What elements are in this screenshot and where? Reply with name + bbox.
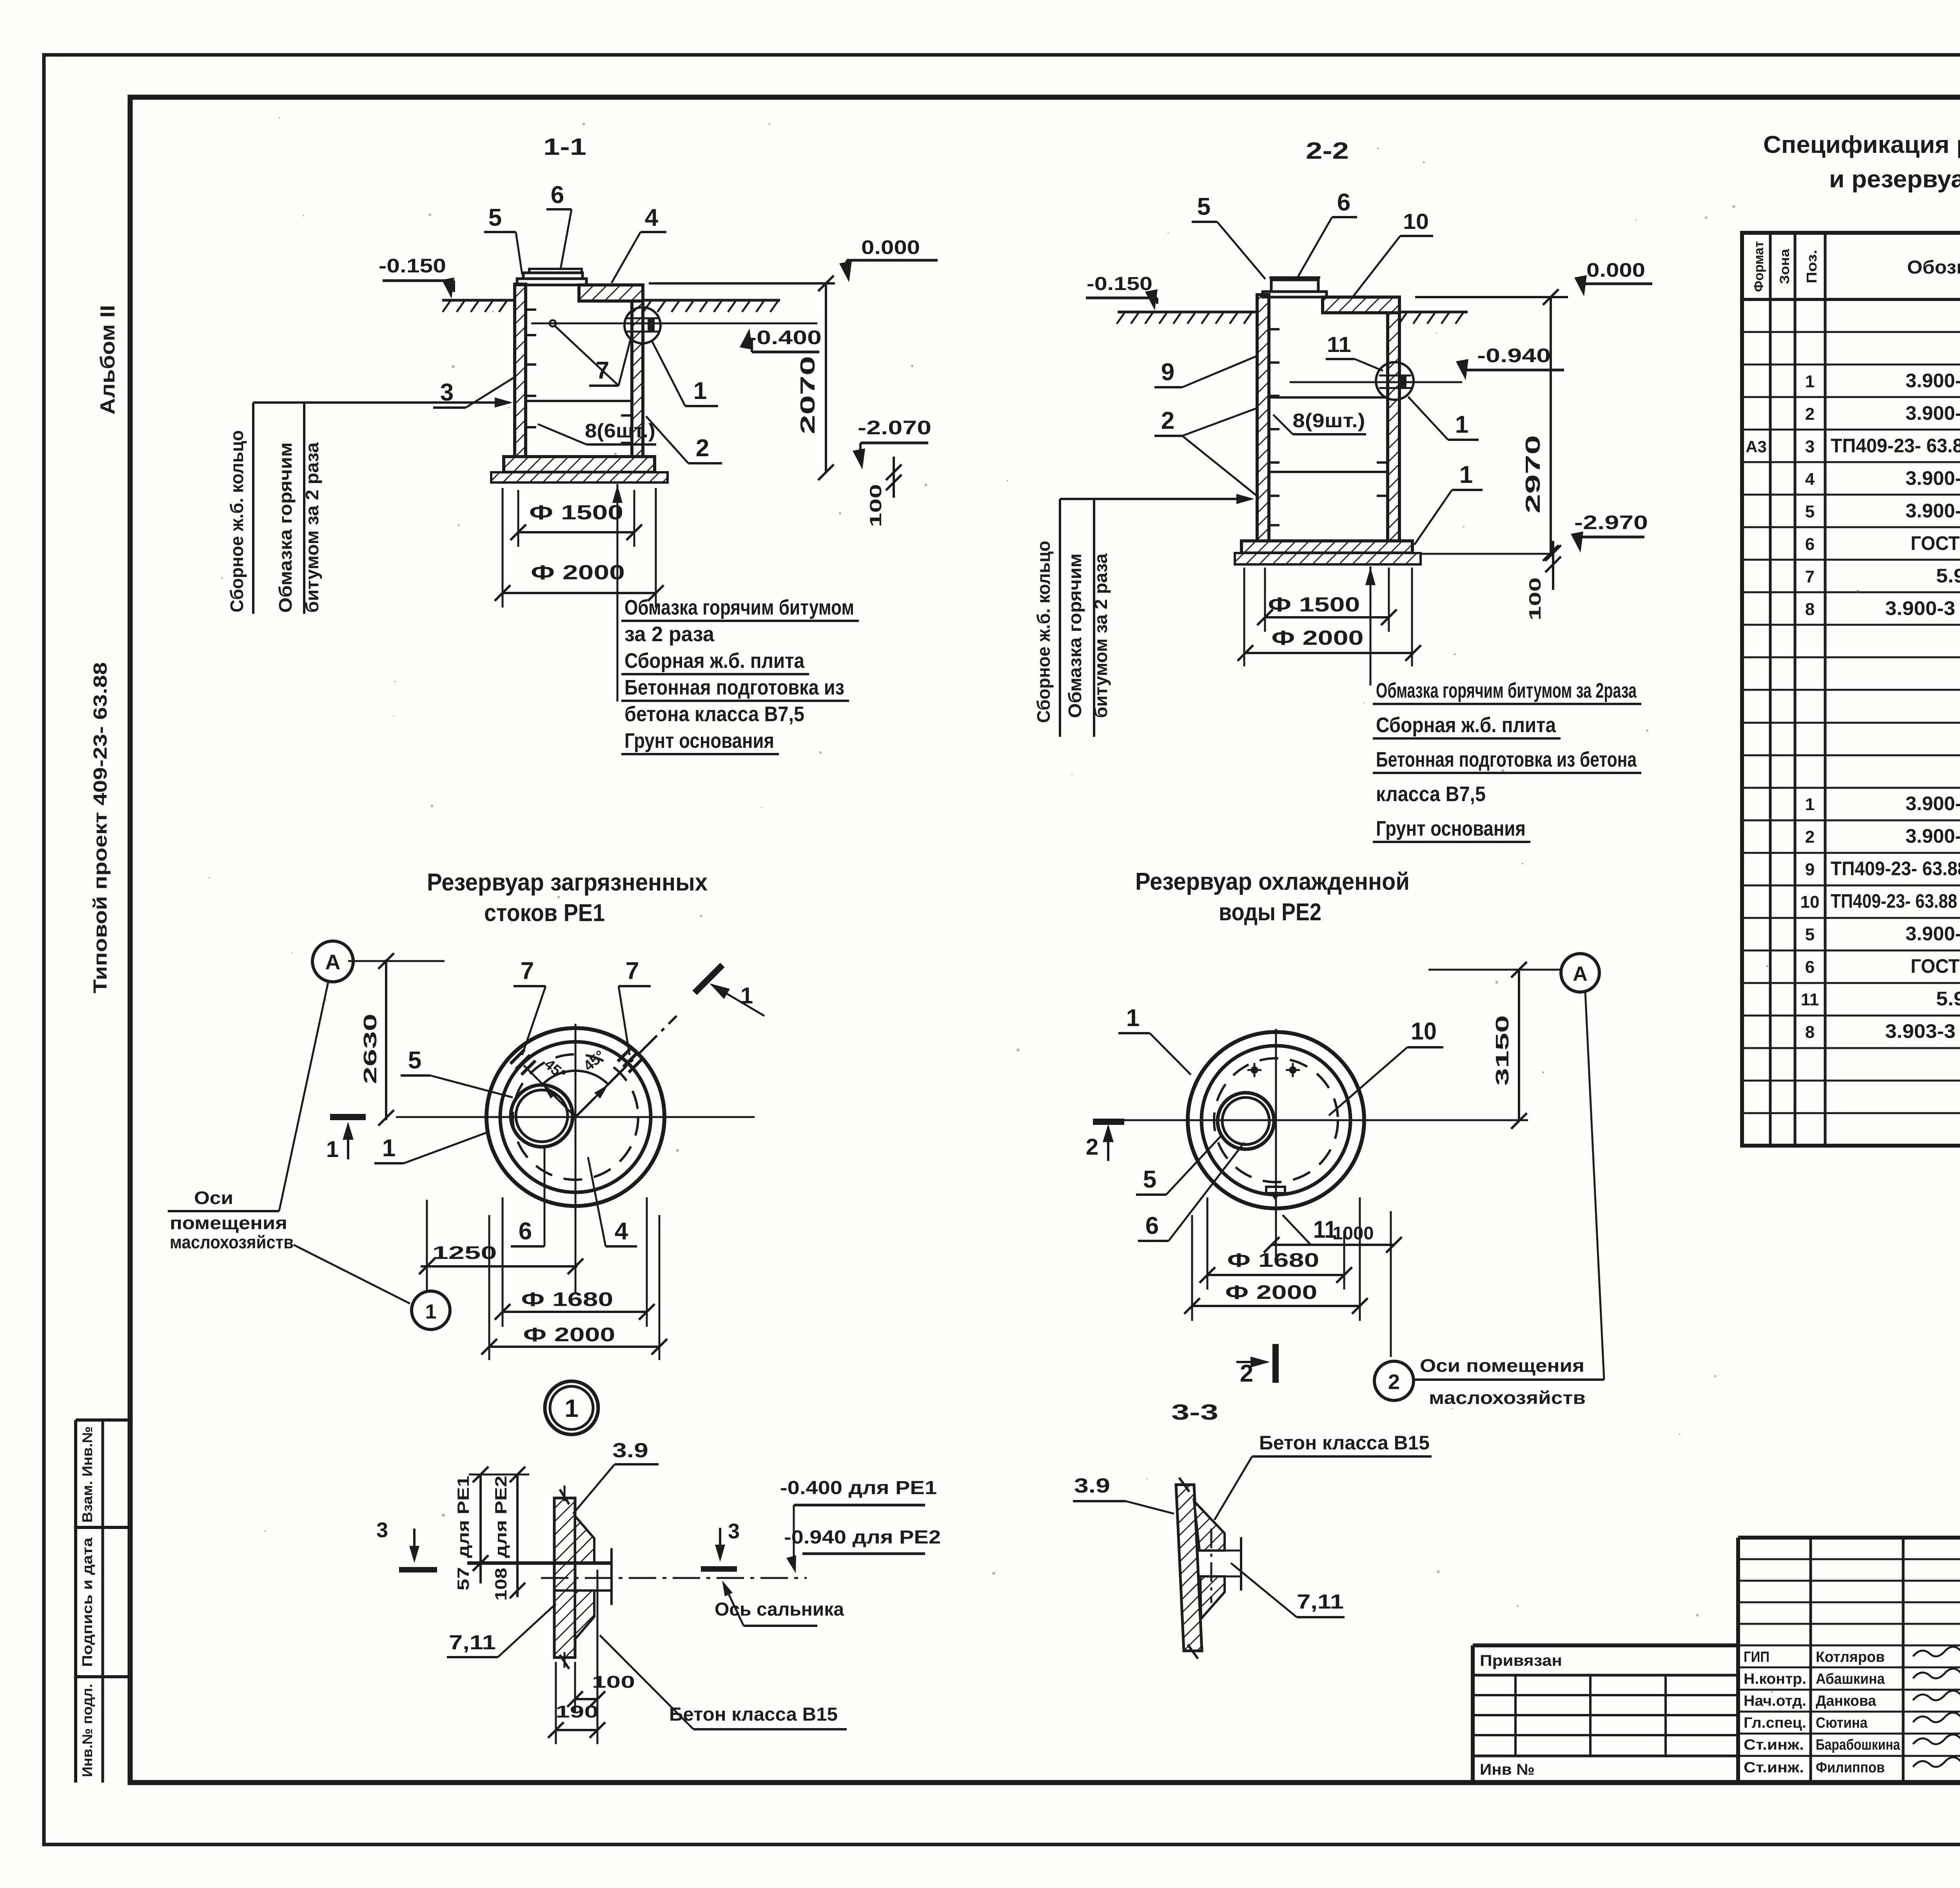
svg-text:1: 1 — [1805, 795, 1815, 814]
tank 1-1 gland detail circle — [624, 307, 661, 343]
detail 3-3 break marks — [1179, 1478, 1189, 1492]
tank 1-1 bottom slab 1 — [504, 457, 655, 472]
svg-text:3.900-3 Вып.7: 3.900-3 Вып.7 — [1906, 793, 1960, 814]
spec table column lines — [1769, 233, 1772, 1146]
tank 1-1 manhole cover 6 — [517, 279, 586, 285]
svg-text:Обмазка горячим: Обмазка горячим — [275, 443, 296, 613]
svg-text:1: 1 — [425, 1300, 437, 1323]
svg-text:5.900-2: 5.900-2 — [1936, 565, 1960, 587]
svg-text:Ф 2000: Ф 2000 — [1225, 1281, 1318, 1303]
svg-text:Филиппов: Филиппов — [1816, 1759, 1885, 1776]
svg-text:за 2 раза: за 2 раза — [624, 622, 715, 646]
dim 100 of 1-1 base — [893, 457, 895, 498]
svg-text:5: 5 — [488, 204, 502, 231]
svg-text:Инв №: Инв № — [1480, 1761, 1535, 1778]
plan PE1 datum circle A — [312, 941, 353, 982]
svg-text:Поз.: Поз. — [1804, 250, 1820, 283]
svg-text:битумом за 2 раза: битумом за 2 раза — [302, 442, 322, 613]
svg-text:Оси: Оси — [194, 1188, 233, 1208]
svg-text:Ф 1500: Ф 1500 — [529, 501, 623, 524]
svg-text:1: 1 — [1459, 461, 1473, 488]
plan PE1 dim 1250 — [421, 1265, 577, 1268]
plan PE2 center lines — [1103, 1119, 1528, 1121]
plan PE1 detail callout circle 1 — [545, 1381, 598, 1435]
signature table row lines — [1738, 1558, 1960, 1560]
dim 100 of 2-2 base — [1552, 541, 1554, 590]
svg-text:Ось сальника: Ось сальника — [715, 1599, 844, 1620]
svg-text:6: 6 — [1145, 1212, 1159, 1239]
svg-text:Обмазка горячим битумом за 2ра: Обмазка горячим битумом за 2раза — [1376, 679, 1637, 702]
bracket note 2-2 left — [1060, 498, 1251, 500]
ground line right of tank 2-2 — [1399, 311, 1468, 314]
svg-text:Зона: Зона — [1777, 248, 1792, 284]
svg-text:3: 3 — [1805, 437, 1815, 456]
tank 2-2 right wall — [1388, 312, 1399, 541]
detail 3-3 pipe lines — [1225, 1550, 1241, 1552]
plan PE2 manhole circles — [1218, 1093, 1274, 1149]
svg-text:7: 7 — [521, 958, 534, 985]
svg-text:11: 11 — [1801, 990, 1819, 1009]
svg-text:Бетонная подготовка из бетона: Бетонная подготовка из бетона — [1376, 748, 1637, 771]
svg-text:9: 9 — [1805, 860, 1815, 879]
plan PE2 section mark 2 bottom — [1272, 1344, 1279, 1383]
tank 1-1 pipe axis — [531, 323, 817, 325]
svg-text:5: 5 — [1197, 193, 1210, 220]
svg-text:Гл.спец.: Гл.спец. — [1744, 1715, 1806, 1731]
svg-text:Ф 2000: Ф 2000 — [523, 1324, 615, 1346]
svg-text:57: 57 — [454, 1567, 472, 1591]
plan PE2 embed mark left — [1247, 1069, 1261, 1071]
plan PE1 inner dashed circle — [513, 1054, 638, 1180]
svg-text:Ст.инж.: Ст.инж. — [1744, 1737, 1804, 1753]
dim 2970 vertical — [1550, 297, 1552, 553]
svg-text:ТП409-23- 63.88 - КЖИ-КЦП1-15-: ТП409-23- 63.88 - КЖИ-КЦП1-15-1-1 — [1831, 890, 1960, 912]
detail 3-3 wall strip — [1176, 1485, 1202, 1651]
svg-text:2: 2 — [1388, 1370, 1400, 1394]
svg-text:Ст.инж.: Ст.инж. — [1744, 1759, 1804, 1776]
detail 1 top slab level line — [467, 1562, 611, 1565]
svg-text:2: 2 — [1805, 404, 1815, 424]
svg-text:3.900-3 Вып.7: 3.900-3 Вып.7 — [1906, 500, 1960, 522]
plan PE1 wall circle — [500, 1042, 651, 1192]
svg-text:1: 1 — [1126, 1005, 1140, 1032]
svg-text:2070: 2070 — [797, 356, 819, 434]
svg-text:3: 3 — [728, 1520, 740, 1543]
leader to notes of 1-1 — [617, 484, 619, 702]
plan PE1 gland hatch left — [510, 1050, 524, 1064]
tank 2-2 manhole cover 6 — [1263, 292, 1327, 297]
plan PE1 axis circle 1 — [412, 1291, 450, 1329]
svg-text:-2.970: -2.970 — [1574, 511, 1648, 533]
ground line right of tank 1-1 — [643, 299, 780, 302]
detail 1 concrete fill lower — [575, 1591, 594, 1639]
scan speckle — [911, 365, 913, 367]
svg-text:5: 5 — [1805, 502, 1815, 521]
tank 2-2 ring joints — [1269, 396, 1388, 399]
svg-text:8(6шт.): 8(6шт.) — [585, 420, 655, 442]
svg-text:2630: 2630 — [360, 1014, 380, 1084]
svg-text:битумом за 2 раза: битумом за 2 раза — [1091, 553, 1111, 718]
tank 2-2 pipe axis — [1290, 381, 1462, 383]
tank 1-1 ring joint — [526, 400, 632, 402]
svg-text:маслохозяйств: маслохозяйств — [1429, 1387, 1586, 1408]
detail 1 dim lines left — [479, 1474, 482, 1583]
spec table row lines — [1742, 331, 1960, 333]
plan PE1 manhole circles — [511, 1085, 573, 1147]
svg-text:3.900-3 Вып.7 ч.2: 3.900-3 Вып.7 ч.2 — [1885, 597, 1960, 619]
svg-text:Барабошкина: Барабошкина — [1816, 1737, 1900, 1753]
svg-text:Нач.отд.: Нач.отд. — [1744, 1693, 1806, 1709]
plan PE1 section mark 1 left — [330, 1114, 366, 1120]
svg-text:ГОСТ 3634-79: ГОСТ 3634-79 — [1911, 532, 1960, 554]
svg-text:1: 1 — [740, 983, 753, 1008]
tank 1-1 right wall — [632, 301, 643, 457]
svg-text:бетона класса В7,5: бетона класса В7,5 — [624, 702, 804, 726]
svg-text:100: 100 — [866, 484, 885, 527]
svg-text:Ф 2000: Ф 2000 — [1272, 627, 1364, 649]
tank 2-2 bottom slab 1 — [1241, 541, 1412, 553]
ground line left of tank 2-2 — [1118, 311, 1257, 314]
tank 1-1 gland pipe — [626, 317, 660, 319]
spec table outer box — [1742, 233, 1960, 1146]
svg-text:Подпись и дата: Подпись и дата — [79, 1537, 95, 1667]
svg-text:Спецификация резервуара загр: Спецификация резервуара загрязненных сто… — [1763, 131, 1960, 158]
svg-text:3: 3 — [376, 1518, 388, 1542]
svg-text:45°: 45° — [581, 1047, 608, 1074]
svg-text:Взам. Инв.№: Взам. Инв.№ — [79, 1426, 95, 1523]
detail 3-3 pipe axis — [1210, 1529, 1212, 1603]
svg-text:Обмазка горячим битумом: Обмазка горячим битумом — [624, 596, 854, 619]
svg-text:Сборная ж.б. плита: Сборная ж.б. плита — [1376, 713, 1556, 737]
svg-text:3.903-3 Вып.7.4.2: 3.903-3 Вып.7.4.2 — [1885, 1020, 1960, 1042]
tank 1-1 cover slab 4 — [579, 285, 643, 301]
svg-text:А: А — [1573, 963, 1588, 985]
svg-text:108: 108 — [492, 1568, 510, 1601]
svg-text:Обозначение: Обозначение — [1907, 257, 1960, 278]
plan PE2 gland protrusion bottom — [1266, 1187, 1285, 1193]
svg-text:5: 5 — [408, 1047, 421, 1074]
plan PE2 outer circle — [1188, 1032, 1364, 1208]
svg-text:Бетон класса В15: Бетон класса В15 — [669, 1704, 838, 1725]
plan PE1 outer circle — [486, 1028, 664, 1206]
detail 1 gland pipe lines — [594, 1562, 612, 1564]
svg-text:Ф 1680: Ф 1680 — [1227, 1249, 1319, 1271]
leader to notes of 2-2 — [1370, 566, 1372, 686]
dim 2070 vertical — [825, 283, 827, 472]
svg-text:2: 2 — [1240, 1360, 1253, 1387]
svg-text:6: 6 — [1805, 958, 1815, 977]
svg-text:3.9: 3.9 — [612, 1439, 648, 1462]
svg-text:3.900-3 Вып.7: 3.900-3 Вып.7 — [1906, 402, 1960, 424]
plan PE2 datum circle A — [1561, 954, 1599, 992]
svg-text:1: 1 — [1805, 372, 1815, 391]
tank 2-2 gland pipe — [1379, 375, 1411, 377]
svg-text:Альбом II: Альбом II — [96, 305, 119, 415]
plan PE2 embed mark right — [1286, 1069, 1300, 1071]
svg-text:-2.070: -2.070 — [858, 417, 931, 439]
svg-text:10: 10 — [1800, 892, 1820, 912]
svg-text:Ф 1680: Ф 1680 — [521, 1288, 613, 1310]
svg-text:3.9: 3.9 — [1074, 1474, 1110, 1497]
svg-text:Привязан: Привязан — [1480, 1652, 1562, 1669]
svg-text:1: 1 — [1455, 411, 1468, 438]
svg-text:ТП409-23- 63.88 - КЖИ-КЦ-15-9-: ТП409-23- 63.88 - КЖИ-КЦ-15-9-1 — [1831, 858, 1960, 880]
svg-text:10: 10 — [1403, 209, 1429, 234]
svg-text:Грунт основания: Грунт основания — [1376, 817, 1526, 840]
tank 2-2 left wall embed ticks — [1269, 328, 1279, 330]
tank 1-1 left wall — [515, 284, 526, 457]
svg-text:Типовой проект 409-23- 63.88: Типовой проект 409-23- 63.88 — [90, 662, 111, 994]
plan PE1 gland hatch right — [618, 1047, 632, 1061]
detail 1 lower level line — [554, 1589, 611, 1592]
svg-text:11: 11 — [1327, 332, 1351, 357]
tank 2-2 gland detail circle — [1376, 362, 1414, 400]
detail 1 break marks — [560, 1489, 569, 1504]
svg-text:Сютина: Сютина — [1816, 1715, 1868, 1731]
plan PE1 45deg radial left — [524, 1065, 575, 1117]
svg-text:Н.контр.: Н.контр. — [1744, 1671, 1806, 1687]
svg-text:Формат: Формат — [1751, 241, 1766, 292]
svg-text:1250: 1250 — [432, 1242, 497, 1263]
svg-text:5: 5 — [1143, 1166, 1156, 1193]
margin table box — [74, 1420, 77, 1783]
svg-text:2970: 2970 — [1522, 435, 1544, 513]
svg-text:10: 10 — [1411, 1018, 1437, 1045]
svg-text:45°: 45° — [541, 1056, 569, 1083]
tank 1-1 right wall embed ticks — [621, 414, 632, 417]
svg-text:3.900-3 Вып.7: 3.900-3 Вып.7 — [1906, 923, 1960, 945]
tank 2-2 left wall — [1257, 295, 1269, 541]
plan PE1 center lines — [396, 1116, 755, 1118]
svg-text:и резервуара охлажденной во: и резервуара охлажденной воды РЕ2 — [1829, 166, 1960, 193]
attachment box left — [1473, 1643, 1738, 1647]
svg-text:0.000: 0.000 — [1586, 259, 1645, 281]
plan PE1 angle arc — [543, 1071, 608, 1085]
svg-text:7,11: 7,11 — [1297, 1591, 1344, 1613]
svg-text:Сборное ж.б. кольцо: Сборное ж.б. кольцо — [227, 430, 247, 613]
tank 2-2 cover slab 10 — [1323, 297, 1399, 313]
svg-text:6: 6 — [1805, 535, 1815, 554]
svg-text:8: 8 — [1805, 600, 1815, 619]
svg-text:А: А — [325, 950, 341, 974]
svg-text:9: 9 — [1161, 359, 1174, 386]
svg-text:1: 1 — [326, 1137, 339, 1162]
plan PE2 dim 3150 — [1518, 970, 1520, 1121]
svg-text:4: 4 — [1805, 470, 1815, 489]
svg-text:Инв.№ подл.: Инв.№ подл. — [79, 1684, 95, 1777]
detail 3-3 concrete fill — [1194, 1501, 1225, 1551]
tank 2-2 concrete prep strip — [1235, 553, 1421, 564]
tank 1-1 left wall embed ticks — [526, 308, 536, 311]
svg-text:1000: 1000 — [1333, 1223, 1374, 1243]
svg-text:2: 2 — [1805, 827, 1815, 847]
svg-text:3150: 3150 — [1492, 1015, 1512, 1086]
svg-text:Резервуар загрязненных: Резервуар загрязненных — [427, 869, 708, 896]
detail 1 wall strip — [554, 1498, 575, 1658]
svg-text:3.900-3 Вып.7: 3.900-3 Вып.7 — [1906, 467, 1960, 489]
plan PE2 dim 1000 — [1272, 1244, 1394, 1246]
detail 1 concrete fill upper — [575, 1516, 594, 1563]
svg-text:Сборное ж.б. кольцо: Сборное ж.б. кольцо — [1033, 541, 1054, 723]
svg-text:7: 7 — [1805, 567, 1815, 586]
svg-text:Резервуар охлажденной: Резервуар охлажденной — [1135, 868, 1410, 895]
svg-text:-0.150: -0.150 — [379, 255, 446, 277]
svg-text:Оси помещения: Оси помещения — [1420, 1355, 1584, 1376]
svg-text:ТП409-23- 63.88 КЖИ КЦ-15-9-1: ТП409-23- 63.88 КЖИ КЦ-15-9-1 — [1831, 435, 1960, 457]
svg-text:Сборная ж.б. плита: Сборная ж.б. плита — [624, 649, 805, 673]
ground line left of tank 1-1 — [442, 299, 515, 302]
svg-text:2: 2 — [1161, 407, 1174, 434]
spec table header row line — [1742, 298, 1960, 301]
plan PE2 inner dashed circle — [1214, 1058, 1338, 1182]
svg-text:5: 5 — [1805, 925, 1815, 944]
svg-text:Ф 1500: Ф 1500 — [1268, 593, 1360, 616]
svg-text:3.900-3 Вып.7: 3.900-3 Вып.7 — [1906, 825, 1960, 847]
svg-text:стоков РЕ1: стоков РЕ1 — [484, 900, 605, 927]
svg-text:класса В7,5: класса В7,5 — [1376, 782, 1486, 806]
svg-text:ГИП: ГИП — [1744, 1649, 1769, 1665]
svg-text:-0.150: -0.150 — [1087, 274, 1152, 294]
plan PE1 section line 1 diagonal — [575, 1016, 677, 1117]
svg-text:100: 100 — [1526, 577, 1544, 620]
plan PE2 section mark 2 left — [1093, 1119, 1124, 1125]
svg-text:1: 1 — [564, 1394, 579, 1422]
plan PE1 dim 2630 — [385, 959, 387, 1120]
svg-text:7: 7 — [626, 958, 639, 985]
svg-text:8(9шт.): 8(9шт.) — [1293, 410, 1365, 432]
svg-text:5.900-2: 5.900-2 — [1936, 988, 1960, 1010]
svg-text:Бетонная подготовка из: Бетонная подготовка из — [624, 676, 844, 699]
svg-text:Бетон класса В15: Бетон класса В15 — [1259, 1432, 1430, 1454]
svg-text:1: 1 — [693, 377, 707, 404]
plan PE2 axes note — [1374, 1361, 1414, 1400]
svg-text:1-1: 1-1 — [543, 134, 586, 160]
svg-text:Данкова: Данкова — [1816, 1693, 1877, 1709]
tank 1-1 pipe end circle — [550, 320, 556, 326]
svg-text:4: 4 — [615, 1218, 628, 1245]
svg-text:3.900-3 Вып.7: 3.900-3 Вып.7 — [1906, 370, 1960, 392]
svg-text:0.000: 0.000 — [861, 236, 920, 258]
svg-text:ГОСТ 3634-79: ГОСТ 3634-79 — [1911, 955, 1960, 977]
svg-text:2: 2 — [696, 435, 709, 462]
svg-text:-0.400 для РЕ1: -0.400 для РЕ1 — [780, 1478, 937, 1498]
svg-text:6: 6 — [1337, 189, 1350, 216]
svg-text:1: 1 — [382, 1135, 396, 1162]
tank 1-1 concrete prep strip — [491, 472, 668, 482]
svg-text:190: 190 — [555, 1702, 599, 1721]
svg-text:-0.940: -0.940 — [1477, 345, 1551, 366]
plan PE1 45deg radial right — [575, 1065, 627, 1117]
svg-text:6: 6 — [551, 181, 564, 209]
svg-text:Обмазка горячим: Обмазка горячим — [1065, 553, 1085, 718]
svg-text:-0.400: -0.400 — [748, 326, 822, 348]
svg-text:2: 2 — [1086, 1134, 1098, 1160]
svg-text:воды РЕ2: воды РЕ2 — [1219, 899, 1321, 926]
svg-text:3-3: 3-3 — [1171, 1400, 1218, 1424]
svg-text:Грунт основания: Грунт основания — [624, 729, 774, 753]
svg-text:А3: А3 — [1746, 437, 1767, 456]
svg-text:Ф 2000: Ф 2000 — [531, 561, 625, 584]
svg-text:4: 4 — [645, 204, 659, 231]
svg-text:6: 6 — [519, 1218, 532, 1245]
svg-text:2-2: 2-2 — [1306, 138, 1349, 164]
signature table box — [1736, 1538, 1740, 1783]
tank 2-2 right wall embed ticks — [1377, 461, 1388, 464]
svg-text:для РЕ1: для РЕ1 — [454, 1476, 472, 1558]
svg-text:помещения: помещения — [170, 1213, 287, 1233]
svg-text:маслохозяйств: маслохозяйств — [170, 1232, 294, 1252]
plan PE2 wall circle — [1201, 1046, 1350, 1195]
svg-text:Котляров: Котляров — [1816, 1649, 1885, 1665]
svg-text:Абашкина: Абашкина — [1816, 1671, 1885, 1687]
svg-text:8: 8 — [1805, 1023, 1815, 1042]
bracket note 1-1 left — [253, 401, 510, 404]
svg-text:-0.940 для РЕ2: -0.940 для РЕ2 — [784, 1527, 941, 1548]
detail 1 gland axis — [541, 1577, 807, 1579]
svg-text:для РЕ2: для РЕ2 — [492, 1476, 510, 1558]
svg-text:7,11: 7,11 — [449, 1631, 496, 1654]
